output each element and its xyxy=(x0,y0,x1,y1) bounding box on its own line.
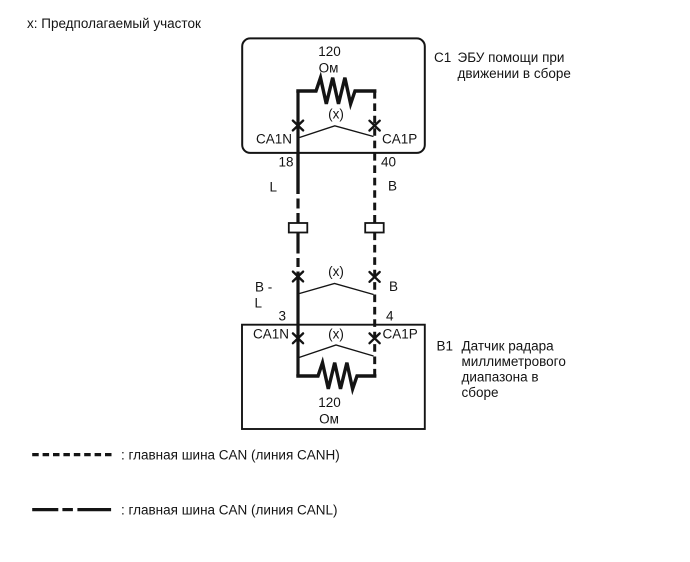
wire: CANH trunk below C1 (dashed) xyxy=(373,153,376,223)
legend: CANL dash-dot line sample (long dash) xyxy=(32,508,58,511)
wire: CANL trunk solid into B1 down to resistor xyxy=(296,272,299,377)
svg-text:сборе: сборе xyxy=(462,385,499,400)
svg-text:L: L xyxy=(255,296,263,311)
legend: CANL line sample (long dash 2) xyxy=(77,508,111,511)
legend: CANL line sample (short dash) xyxy=(62,508,73,511)
svg-text:движении в сборе: движении в сборе xyxy=(458,66,571,81)
svg-text:(x): (x) xyxy=(328,327,344,342)
svg-text:CA1P: CA1P xyxy=(382,132,417,147)
wire: CANH trunk dashed to B1 resistor xyxy=(373,233,376,377)
svg-text:Ом: Ом xyxy=(319,61,339,76)
svg-text:ЭБУ помощи при: ЭБУ помощи при xyxy=(458,50,565,65)
svg-text:миллиметрового: миллиметрового xyxy=(462,354,566,369)
svg-text:B: B xyxy=(389,279,398,294)
wire: CANL trunk short dash 2 xyxy=(296,258,299,267)
wire: CANH inside C1, resistor to pin CA1P (dashed) xyxy=(373,91,376,153)
svg-text:(x): (x) xyxy=(328,264,344,279)
svg-text:3: 3 xyxy=(278,309,286,324)
splice X on CANH trunk (middle) xyxy=(370,272,380,282)
svg-text:x: Предполагаемый участок: x: Предполагаемый участок xyxy=(27,16,201,31)
splice X on CANL wire in B1 xyxy=(293,333,303,343)
svg-text:CA1N: CA1N xyxy=(256,132,292,147)
svg-text:4: 4 xyxy=(386,309,394,324)
resistor R 120 Ohm (in C1) xyxy=(298,78,375,104)
svg-text:диапазона в: диапазона в xyxy=(462,370,539,385)
svg-text:B1: B1 xyxy=(437,339,454,354)
splice X on CANH wire in C1 xyxy=(370,121,380,131)
connector on CANL wire xyxy=(289,223,308,233)
svg-text:18: 18 xyxy=(278,155,293,170)
svg-text:120: 120 xyxy=(318,44,341,59)
assumed-area bracket (chevron) in C1 xyxy=(300,126,374,138)
legend: CANH dashed line sample xyxy=(32,453,111,456)
svg-text:: главная шина CAN (линия CANL: : главная шина CAN (линия CANL) xyxy=(121,503,338,518)
wire: CANL trunk short dash xyxy=(296,199,299,209)
svg-text:B -: B - xyxy=(255,280,272,295)
svg-text:(x): (x) xyxy=(328,107,344,122)
svg-text:CA1N: CA1N xyxy=(253,327,289,342)
svg-text:120: 120 xyxy=(318,395,341,410)
wire: CANL trunk below C1 (long solid segment) xyxy=(296,153,299,194)
svg-text:CA1P: CA1P xyxy=(383,327,418,342)
svg-text:Датчик радара: Датчик радара xyxy=(462,339,555,354)
assumed-area bracket (chevron) in B1 xyxy=(299,345,374,358)
splice X on CANL wire in C1 xyxy=(293,121,303,131)
wire: CANL trunk solid through connector xyxy=(296,213,299,254)
resistor R 120 Ohm (in B1) xyxy=(298,363,375,389)
radar sensor box B1 xyxy=(242,325,425,429)
svg-text:40: 40 xyxy=(381,155,396,170)
svg-text:Ом: Ом xyxy=(319,412,339,427)
svg-text:L: L xyxy=(270,180,278,195)
splice X on CANH wire in B1 xyxy=(370,333,380,343)
svg-text:: главная шина CAN (линия CANH: : главная шина CAN (линия CANH) xyxy=(121,448,340,463)
assumed-area bracket (chevron, middle) xyxy=(300,284,374,295)
svg-text:C1: C1 xyxy=(434,50,451,65)
wire: CANL inside C1, resistor to pin CA1N (solid) xyxy=(296,91,299,194)
ECU box C1 xyxy=(242,38,425,152)
splice X on CANL trunk (middle) xyxy=(293,272,303,282)
connector on CANH wire xyxy=(365,223,384,233)
svg-text:B: B xyxy=(388,179,397,194)
